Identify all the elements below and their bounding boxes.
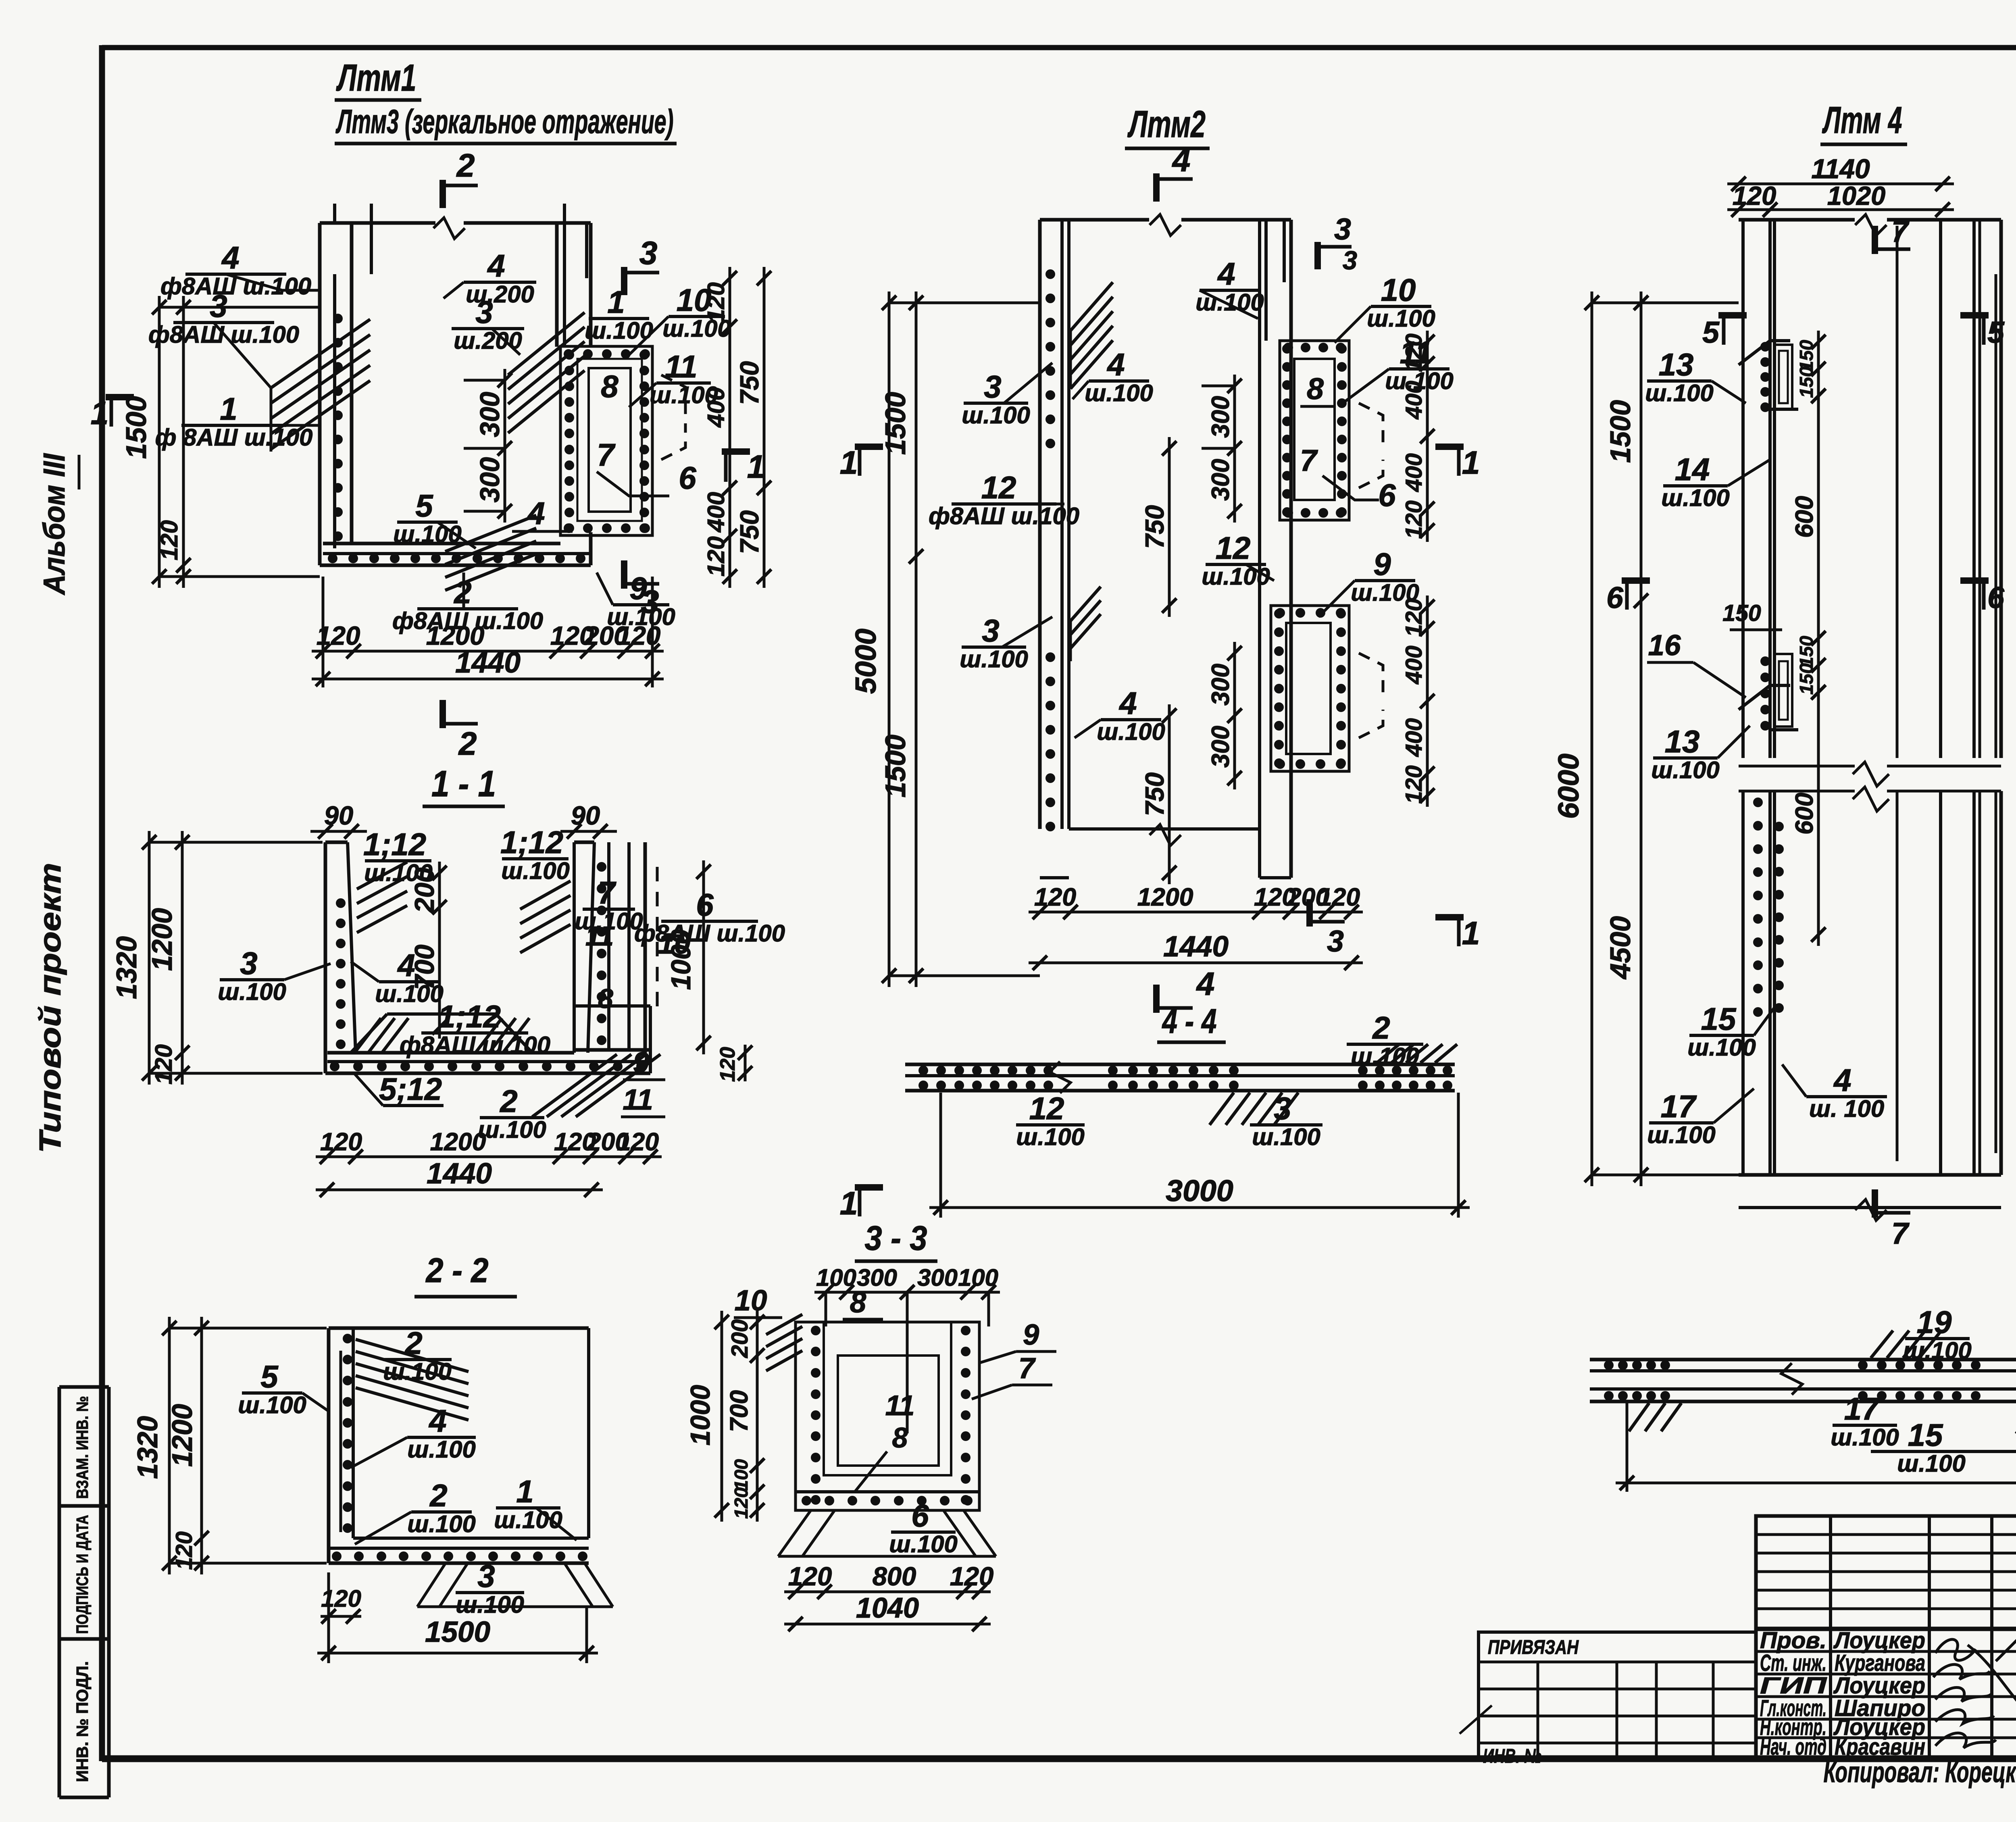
1-1 right wall bbox=[573, 842, 576, 1053]
svg-text:Типовой проект: Типовой проект bbox=[33, 863, 67, 1153]
svg-text:ш.100: ш.100 bbox=[889, 1530, 958, 1558]
svg-text:3: 3 bbox=[1334, 212, 1351, 246]
Лтм1 dims bottom bbox=[312, 650, 664, 653]
svg-text:150: 150 bbox=[1796, 366, 1817, 398]
Лтм2 section marker 3 bottom bbox=[1306, 899, 1313, 927]
svg-text:9: 9 bbox=[1373, 546, 1391, 582]
svg-text:300: 300 bbox=[475, 392, 505, 437]
svg-text:ш.100: ш.100 bbox=[1661, 484, 1730, 511]
svg-text:2: 2 bbox=[404, 1325, 422, 1361]
1-1 hatch left wall bbox=[357, 862, 407, 889]
svg-text:ш.100: ш.100 bbox=[1016, 1123, 1085, 1150]
svg-text:100: 100 bbox=[958, 1264, 998, 1291]
svg-text:4: 4 bbox=[527, 496, 545, 531]
Лтм1 right edge beam bbox=[560, 346, 652, 535]
svg-text:ш.100: ш.100 bbox=[407, 1510, 476, 1537]
7-7 slab bbox=[1590, 1358, 2016, 1362]
svg-text:ш.100: ш.100 bbox=[501, 857, 570, 884]
Лтм4 left dims bbox=[1591, 292, 1593, 1186]
svg-text:ш.100: ш.100 bbox=[962, 402, 1030, 429]
title block signature table bbox=[1756, 1516, 2016, 1758]
7-7 hatch above left bbox=[1871, 1331, 1893, 1358]
svg-text:120: 120 bbox=[320, 1128, 362, 1156]
svg-text:ф8АШ ш.100: ф8АШ ш.100 bbox=[400, 1031, 550, 1058]
svg-text:15: 15 bbox=[1701, 1001, 1737, 1037]
svg-text:800: 800 bbox=[873, 1562, 916, 1591]
svg-text:ш.100: ш.100 bbox=[407, 1436, 476, 1463]
svg-text:7: 7 bbox=[1891, 214, 1910, 248]
1-1 dims right outer bbox=[702, 860, 705, 1054]
7-7 rebar dots bbox=[1604, 1360, 1614, 1370]
Лтм4 wall verticals lower bbox=[1741, 791, 1745, 1175]
svg-text:400: 400 bbox=[1401, 646, 1427, 685]
svg-text:ш.100: ш.100 bbox=[1202, 563, 1270, 590]
svg-text:4: 4 bbox=[221, 240, 239, 275]
svg-text:120: 120 bbox=[702, 282, 729, 323]
svg-text:750: 750 bbox=[735, 361, 764, 405]
svg-text:600: 600 bbox=[1791, 793, 1818, 835]
Лтм4 bracket detail lower bbox=[1739, 685, 1790, 710]
svg-text:Лтм2: Лтм2 bbox=[1127, 103, 1206, 145]
svg-text:3: 3 bbox=[984, 369, 1001, 404]
svg-text:6: 6 bbox=[911, 1498, 929, 1533]
svg-text:1440: 1440 bbox=[427, 1157, 492, 1190]
Лтм1 dim 300 300 interior bbox=[504, 369, 506, 523]
svg-text:ИНВ. № ПОДЛ.: ИНВ. № ПОДЛ. bbox=[73, 1661, 92, 1782]
svg-text:300: 300 bbox=[475, 457, 505, 503]
Лтм1 section marker 3 bottom right bbox=[621, 560, 627, 589]
1-1 bottom slab bbox=[327, 1051, 574, 1055]
svg-text:ш.100: ш.100 bbox=[1097, 718, 1165, 745]
svg-text:ш.100: ш.100 bbox=[456, 1591, 524, 1618]
7-7 dim 6000 bbox=[1616, 1482, 2016, 1485]
Лтм2 edge beam 2 bbox=[1271, 606, 1349, 771]
Лтм1 section marker 1 left bbox=[106, 394, 134, 400]
svg-text:1500: 1500 bbox=[425, 1616, 490, 1648]
signatures squiggles bbox=[1935, 1639, 1976, 1660]
svg-text:400: 400 bbox=[1401, 718, 1427, 757]
Лтм1 section marker 1 right bbox=[722, 448, 750, 455]
svg-text:8: 8 bbox=[601, 369, 619, 404]
3-3 dims bottom bbox=[784, 1591, 991, 1593]
Лтм4 marker 7 bottom bbox=[1872, 1189, 1878, 1218]
Лтм1 section marker 2 top bbox=[439, 180, 446, 208]
svg-text:ш.100: ш.100 bbox=[238, 1391, 306, 1418]
svg-text:3 - 3: 3 - 3 bbox=[865, 1219, 927, 1258]
svg-text:120: 120 bbox=[1401, 598, 1427, 637]
svg-text:4: 4 bbox=[1118, 685, 1137, 721]
svg-text:120: 120 bbox=[1401, 500, 1427, 539]
1-1 dims bottom bbox=[316, 1156, 662, 1158]
svg-text:6: 6 bbox=[1987, 581, 2005, 614]
svg-text:120: 120 bbox=[950, 1562, 993, 1591]
4-4 slab bbox=[905, 1063, 1455, 1066]
svg-text:17: 17 bbox=[1844, 1391, 1881, 1426]
Лтм1 wall stubs above cut bbox=[333, 204, 336, 223]
svg-text:7: 7 bbox=[1300, 444, 1318, 477]
svg-text:1 - 1: 1 - 1 bbox=[431, 764, 496, 804]
svg-text:ш.100: ш.100 bbox=[1645, 379, 1714, 406]
svg-text:ш.100: ш.100 bbox=[218, 978, 286, 1005]
Лтм2 left dims bbox=[888, 292, 891, 987]
svg-text:6: 6 bbox=[679, 460, 696, 496]
svg-text:4: 4 bbox=[1196, 966, 1215, 1002]
svg-text:11: 11 bbox=[585, 921, 614, 952]
svg-text:ВЗАМ. ИНВ. №: ВЗАМ. ИНВ. № bbox=[73, 1396, 92, 1499]
1-1 right edge beam bbox=[607, 842, 610, 1050]
svg-text:90: 90 bbox=[571, 801, 600, 830]
svg-text:4: 4 bbox=[1106, 347, 1125, 382]
Лтм4 bracket detail upper bbox=[1739, 341, 1790, 365]
svg-text:1500: 1500 bbox=[879, 735, 911, 798]
svg-text:2: 2 bbox=[429, 1478, 447, 1513]
svg-text:120: 120 bbox=[1401, 333, 1427, 372]
svg-text:3: 3 bbox=[240, 945, 257, 981]
svg-text:5: 5 bbox=[415, 488, 433, 523]
svg-text:ф8АШ ш.100: ф8АШ ш.100 bbox=[634, 920, 785, 947]
2-2 top edge bbox=[329, 1326, 589, 1330]
svg-text:ш.100: ш.100 bbox=[960, 646, 1028, 673]
svg-text:1320: 1320 bbox=[110, 936, 142, 999]
svg-text:13: 13 bbox=[1659, 347, 1694, 382]
Лтм4 markers 6 bbox=[1622, 577, 1650, 584]
svg-text:1: 1 bbox=[516, 1474, 533, 1509]
svg-text:120: 120 bbox=[617, 1128, 659, 1156]
svg-text:1440: 1440 bbox=[455, 646, 521, 679]
2-2 dims bottom bbox=[321, 1615, 361, 1618]
svg-text:15: 15 bbox=[1908, 1417, 1943, 1453]
Лтм2 edge beam 1 bbox=[1280, 341, 1349, 520]
Лтм1 section marker 2 bottom bbox=[439, 700, 446, 728]
svg-text:ш.100: ш.100 bbox=[1647, 1121, 1716, 1148]
svg-text:ш.100: ш.100 bbox=[383, 1358, 452, 1385]
svg-text:1: 1 bbox=[220, 391, 237, 427]
svg-text:750: 750 bbox=[735, 510, 764, 554]
svg-text:1: 1 bbox=[607, 284, 625, 320]
svg-text:7: 7 bbox=[1018, 1352, 1036, 1385]
2-2 dims left bbox=[168, 1317, 171, 1574]
1-1 hatch right wall bbox=[520, 881, 571, 909]
Лтм4 top edge bbox=[1739, 218, 1855, 222]
svg-text:5000: 5000 bbox=[850, 629, 882, 694]
svg-text:400: 400 bbox=[1401, 381, 1427, 420]
svg-text:6000: 6000 bbox=[1552, 754, 1585, 819]
svg-text:7: 7 bbox=[598, 875, 616, 910]
Лтм1 dim left 1500/120 bbox=[158, 296, 161, 588]
svg-text:ш.100: ш.100 bbox=[393, 521, 462, 548]
Лтм1 walls plan bbox=[320, 221, 435, 225]
svg-text:9: 9 bbox=[1023, 1318, 1039, 1351]
Лтм4 top dims bbox=[1727, 183, 1954, 185]
3-3 hatch top-left corner bbox=[766, 1314, 802, 1335]
Лтм1 section marker 3 top right bbox=[621, 267, 627, 295]
svg-text:11: 11 bbox=[623, 1083, 653, 1116]
svg-text:ш.100: ш.100 bbox=[375, 980, 444, 1007]
7-7 hatch below groups bbox=[1629, 1403, 1649, 1431]
svg-text:ш.100: ш.100 bbox=[1687, 1034, 1756, 1061]
svg-text:120: 120 bbox=[150, 1044, 177, 1085]
2-2 wall bbox=[327, 1328, 331, 1563]
svg-text:10: 10 bbox=[735, 1284, 767, 1317]
svg-text:150: 150 bbox=[1796, 663, 1817, 695]
svg-text:120: 120 bbox=[1034, 883, 1076, 911]
svg-text:7: 7 bbox=[1891, 1216, 1910, 1250]
svg-text:300: 300 bbox=[1207, 459, 1235, 501]
Лтм2 left wall bbox=[1038, 220, 1042, 829]
Лтм2 bottom dims bbox=[1029, 911, 1363, 914]
svg-text:Лоуцкер: Лоуцкер bbox=[1833, 1673, 1925, 1699]
svg-text:Альбом III: Альбом III bbox=[37, 453, 71, 596]
svg-text:8: 8 bbox=[892, 1422, 908, 1453]
3-3 dims left bbox=[721, 1311, 723, 1522]
svg-text:ш.100: ш.100 bbox=[1252, 1123, 1320, 1150]
svg-text:12: 12 bbox=[1029, 1091, 1064, 1126]
svg-text:100: 100 bbox=[731, 1459, 752, 1491]
3-3 slab flare below bbox=[778, 1510, 811, 1556]
svg-text:14: 14 bbox=[1675, 452, 1710, 487]
svg-text:ПОДПИСЬ И ДАТА: ПОДПИСЬ И ДАТА bbox=[73, 1515, 92, 1634]
svg-text:ш.100: ш.100 bbox=[364, 859, 433, 886]
Лтм1 hatch top-right bbox=[508, 312, 585, 375]
svg-text:8: 8 bbox=[598, 984, 613, 1014]
svg-text:120: 120 bbox=[321, 1585, 361, 1612]
svg-text:400: 400 bbox=[702, 492, 729, 533]
svg-text:Ст. инж.: Ст. инж. bbox=[1760, 1650, 1826, 1676]
2-2 slab end flare bbox=[417, 1563, 446, 1607]
svg-text:120: 120 bbox=[716, 1047, 739, 1082]
svg-text:9: 9 bbox=[629, 571, 647, 606]
svg-text:1: 1 bbox=[840, 1185, 858, 1222]
svg-text:19: 19 bbox=[1917, 1304, 1952, 1340]
Лтм4 wall verticals bbox=[1741, 220, 1745, 758]
svg-text:Курганова: Курганова bbox=[1835, 1650, 1925, 1676]
svg-text:ф 8АШ ш.100: ф 8АШ ш.100 bbox=[155, 424, 313, 451]
Лтм1 hatch bottom bbox=[445, 515, 536, 552]
2-2 slab bbox=[353, 1537, 589, 1540]
svg-text:4: 4 bbox=[428, 1403, 446, 1439]
svg-text:400: 400 bbox=[702, 387, 729, 428]
svg-text:1020: 1020 bbox=[1827, 181, 1886, 210]
Лтм2 interior dims bbox=[1233, 375, 1236, 523]
Лтм4 interior dims bbox=[1817, 331, 1820, 407]
svg-text:3: 3 bbox=[982, 613, 999, 648]
svg-text:1000: 1000 bbox=[666, 929, 696, 990]
Лтм2 marker 4 bottom bbox=[1153, 985, 1160, 1013]
svg-text:300: 300 bbox=[917, 1264, 958, 1291]
svg-text:1500: 1500 bbox=[879, 392, 911, 455]
svg-text:2: 2 bbox=[499, 1083, 517, 1119]
svg-text:Лтм 4: Лтм 4 bbox=[1822, 99, 1902, 141]
svg-text:700: 700 bbox=[725, 1390, 753, 1432]
svg-text:Лтм3 (зеркальное отражение): Лтм3 (зеркальное отражение) bbox=[335, 103, 673, 140]
svg-text:2 - 2: 2 - 2 bbox=[425, 1251, 489, 1290]
4-4 hatch center below bbox=[1210, 1093, 1234, 1125]
svg-text:ПРИВЯЗАН: ПРИВЯЗАН bbox=[1488, 1636, 1579, 1658]
svg-text:300: 300 bbox=[1207, 396, 1235, 438]
svg-text:4: 4 bbox=[487, 248, 505, 283]
svg-text:150: 150 bbox=[1722, 600, 1761, 626]
1-1 dims left bbox=[148, 831, 151, 1085]
Лтм2 top edge bbox=[1040, 218, 1149, 222]
svg-text:1200: 1200 bbox=[166, 1404, 198, 1467]
Лтм4 mid break bbox=[1853, 762, 1889, 786]
svg-text:4: 4 bbox=[1172, 142, 1191, 179]
svg-text:12: 12 bbox=[1216, 530, 1251, 566]
svg-text:1: 1 bbox=[91, 395, 109, 431]
svg-text:1320: 1320 bbox=[131, 1416, 163, 1479]
svg-text:ш.100: ш.100 bbox=[1085, 379, 1153, 406]
svg-text:3: 3 bbox=[1274, 1091, 1291, 1126]
svg-text:8: 8 bbox=[850, 1286, 866, 1319]
svg-text:120: 120 bbox=[1401, 765, 1427, 804]
svg-text:120: 120 bbox=[156, 520, 183, 560]
svg-text:4: 4 bbox=[1833, 1062, 1851, 1098]
title block left extension Привязан bbox=[1479, 1632, 1756, 1758]
svg-text:5: 5 bbox=[1702, 315, 1720, 349]
svg-text:120: 120 bbox=[788, 1562, 832, 1591]
svg-text:3: 3 bbox=[639, 235, 658, 271]
svg-text:150: 150 bbox=[1796, 636, 1817, 667]
Лтм4 markers 5 bbox=[1718, 312, 1747, 319]
4-4 bottom dim bbox=[929, 1206, 1470, 1209]
svg-text:120: 120 bbox=[617, 621, 660, 650]
svg-text:3000: 3000 bbox=[1166, 1174, 1233, 1208]
svg-text:120: 120 bbox=[1733, 181, 1776, 210]
svg-text:400: 400 bbox=[1401, 453, 1427, 492]
svg-text:3: 3 bbox=[477, 1558, 495, 1594]
svg-text:1;12: 1;12 bbox=[500, 825, 563, 860]
svg-text:1: 1 bbox=[1462, 915, 1480, 952]
svg-text:1;12: 1;12 bbox=[438, 999, 501, 1034]
svg-text:11: 11 bbox=[665, 349, 698, 384]
Лтм1 hatch top-left bbox=[271, 319, 370, 388]
svg-text:3: 3 bbox=[1343, 246, 1357, 275]
svg-text:6: 6 bbox=[1606, 581, 1624, 614]
svg-text:10: 10 bbox=[1381, 272, 1416, 308]
svg-text:120: 120 bbox=[1318, 883, 1360, 911]
svg-text:2: 2 bbox=[458, 726, 477, 762]
Лтм1 bottom slab bbox=[323, 542, 560, 546]
svg-text:ф8АШ ш.100: ф8АШ ш.100 bbox=[929, 502, 1079, 529]
svg-text:1: 1 bbox=[840, 445, 858, 481]
svg-text:17: 17 bbox=[1661, 1089, 1697, 1124]
3-3 box walls bbox=[796, 1322, 979, 1510]
Лтм2 bottom edge bbox=[1069, 827, 1260, 831]
Лтм2 section marker 4 top bbox=[1153, 173, 1160, 202]
4-4 hatch right top bbox=[1377, 1044, 1399, 1063]
svg-text:1;12: 1;12 bbox=[363, 827, 426, 862]
2-2 hatch wall top bbox=[356, 1339, 469, 1372]
1-1 left wall bbox=[324, 842, 327, 1073]
svg-text:3: 3 bbox=[475, 294, 493, 330]
svg-text:3: 3 bbox=[1327, 924, 1344, 958]
1-1 floor mesh trapezoid bbox=[351, 1014, 387, 1053]
sheet frame bbox=[102, 45, 2016, 50]
svg-text:ГИП: ГИП bbox=[1760, 1673, 1828, 1699]
svg-text:ш.100: ш.100 bbox=[1831, 1424, 1899, 1451]
Лтм4 marker 7 top bbox=[1872, 226, 1878, 254]
svg-text:Копировал: Корецкая: Копировал: Корецкая bbox=[1824, 1756, 2016, 1789]
svg-text:200: 200 bbox=[727, 1319, 753, 1358]
1-1 dims interior bbox=[438, 862, 441, 1039]
svg-text:5: 5 bbox=[260, 1359, 279, 1394]
svg-text:1500: 1500 bbox=[120, 396, 152, 459]
margin stamp boxes bbox=[59, 1385, 109, 1389]
svg-text:300: 300 bbox=[1207, 664, 1235, 706]
svg-text:ш.100: ш.100 bbox=[1903, 1337, 1972, 1364]
svg-text:9: 9 bbox=[633, 1046, 650, 1079]
svg-text:1: 1 bbox=[1462, 445, 1480, 481]
Лтм2 dashed curves right bbox=[1359, 403, 1383, 444]
svg-text:ш. 100: ш. 100 bbox=[1809, 1095, 1884, 1122]
svg-text:8: 8 bbox=[1307, 372, 1324, 406]
svg-text:600: 600 bbox=[1791, 496, 1818, 538]
svg-text:4: 4 bbox=[397, 947, 415, 983]
svg-text:5: 5 bbox=[1987, 315, 2005, 349]
svg-text:90: 90 bbox=[324, 801, 353, 830]
svg-text:13: 13 bbox=[1665, 724, 1700, 759]
svg-text:1000: 1000 bbox=[685, 1385, 716, 1445]
svg-text:5;12: 5;12 bbox=[379, 1071, 442, 1107]
Лтм2 right dims beams bbox=[1426, 331, 1429, 542]
svg-text:120: 120 bbox=[731, 1487, 752, 1519]
svg-text:16: 16 bbox=[1648, 629, 1681, 662]
svg-text:1140: 1140 bbox=[1811, 154, 1870, 184]
svg-text:1200: 1200 bbox=[1137, 883, 1193, 911]
Лтм2 hatch left wall lower bbox=[1070, 587, 1101, 621]
svg-text:ш.100: ш.100 bbox=[1897, 1450, 1966, 1477]
svg-text:ш.100: ш.100 bbox=[1351, 1043, 1419, 1070]
svg-text:750: 750 bbox=[1140, 773, 1169, 816]
Лтм2 hatch left wall upper bbox=[1070, 282, 1113, 331]
svg-text:4: 4 bbox=[1217, 256, 1235, 292]
svg-text:2: 2 bbox=[456, 148, 475, 184]
svg-text:300: 300 bbox=[1207, 726, 1235, 768]
svg-text:Нач. отд: Нач. отд bbox=[1760, 1734, 1826, 1760]
svg-text:12: 12 bbox=[981, 470, 1016, 505]
Лтм2 right wall bbox=[1258, 220, 1261, 878]
svg-text:Лоуцкер: Лоуцкер bbox=[1833, 1628, 1925, 1653]
svg-text:ш.100: ш.100 bbox=[478, 1116, 546, 1143]
1-1 bottom right diagonal bundle bbox=[532, 1054, 617, 1117]
svg-text:6: 6 bbox=[1378, 477, 1396, 513]
svg-text:750: 750 bbox=[1140, 505, 1169, 549]
svg-text:1: 1 bbox=[747, 449, 765, 485]
svg-text:Лтм1: Лтм1 bbox=[336, 56, 416, 99]
svg-text:1200: 1200 bbox=[146, 908, 178, 971]
svg-text:ш.200: ш.200 bbox=[454, 327, 522, 354]
svg-text:1440: 1440 bbox=[1163, 930, 1229, 963]
svg-text:ИНВ. №: ИНВ. № bbox=[1483, 1745, 1541, 1767]
svg-text:4500: 4500 bbox=[1604, 916, 1636, 980]
Лтм4 bottom edge bbox=[1739, 1173, 2001, 1177]
svg-text:2: 2 bbox=[1372, 1010, 1390, 1045]
Лтм1 dims right bbox=[729, 267, 731, 588]
svg-text:ш.100: ш.100 bbox=[1367, 305, 1435, 332]
svg-text:7: 7 bbox=[597, 437, 616, 473]
svg-text:1040: 1040 bbox=[856, 1592, 919, 1624]
3-3 top dims bbox=[814, 1291, 1000, 1294]
Лтм2 section marker 3 right top bbox=[1314, 242, 1321, 269]
svg-text:1500: 1500 bbox=[1604, 400, 1636, 463]
Лтм1 dashed curves right bbox=[661, 375, 685, 415]
svg-text:11: 11 bbox=[885, 1389, 915, 1421]
Лтм2 markers 1 left/right bbox=[855, 444, 883, 450]
svg-text:4 - 4: 4 - 4 bbox=[1162, 1002, 1217, 1041]
svg-text:120: 120 bbox=[702, 536, 729, 577]
svg-text:ш.100: ш.100 bbox=[1651, 756, 1720, 783]
svg-text:Пров.: Пров. bbox=[1760, 1628, 1826, 1653]
